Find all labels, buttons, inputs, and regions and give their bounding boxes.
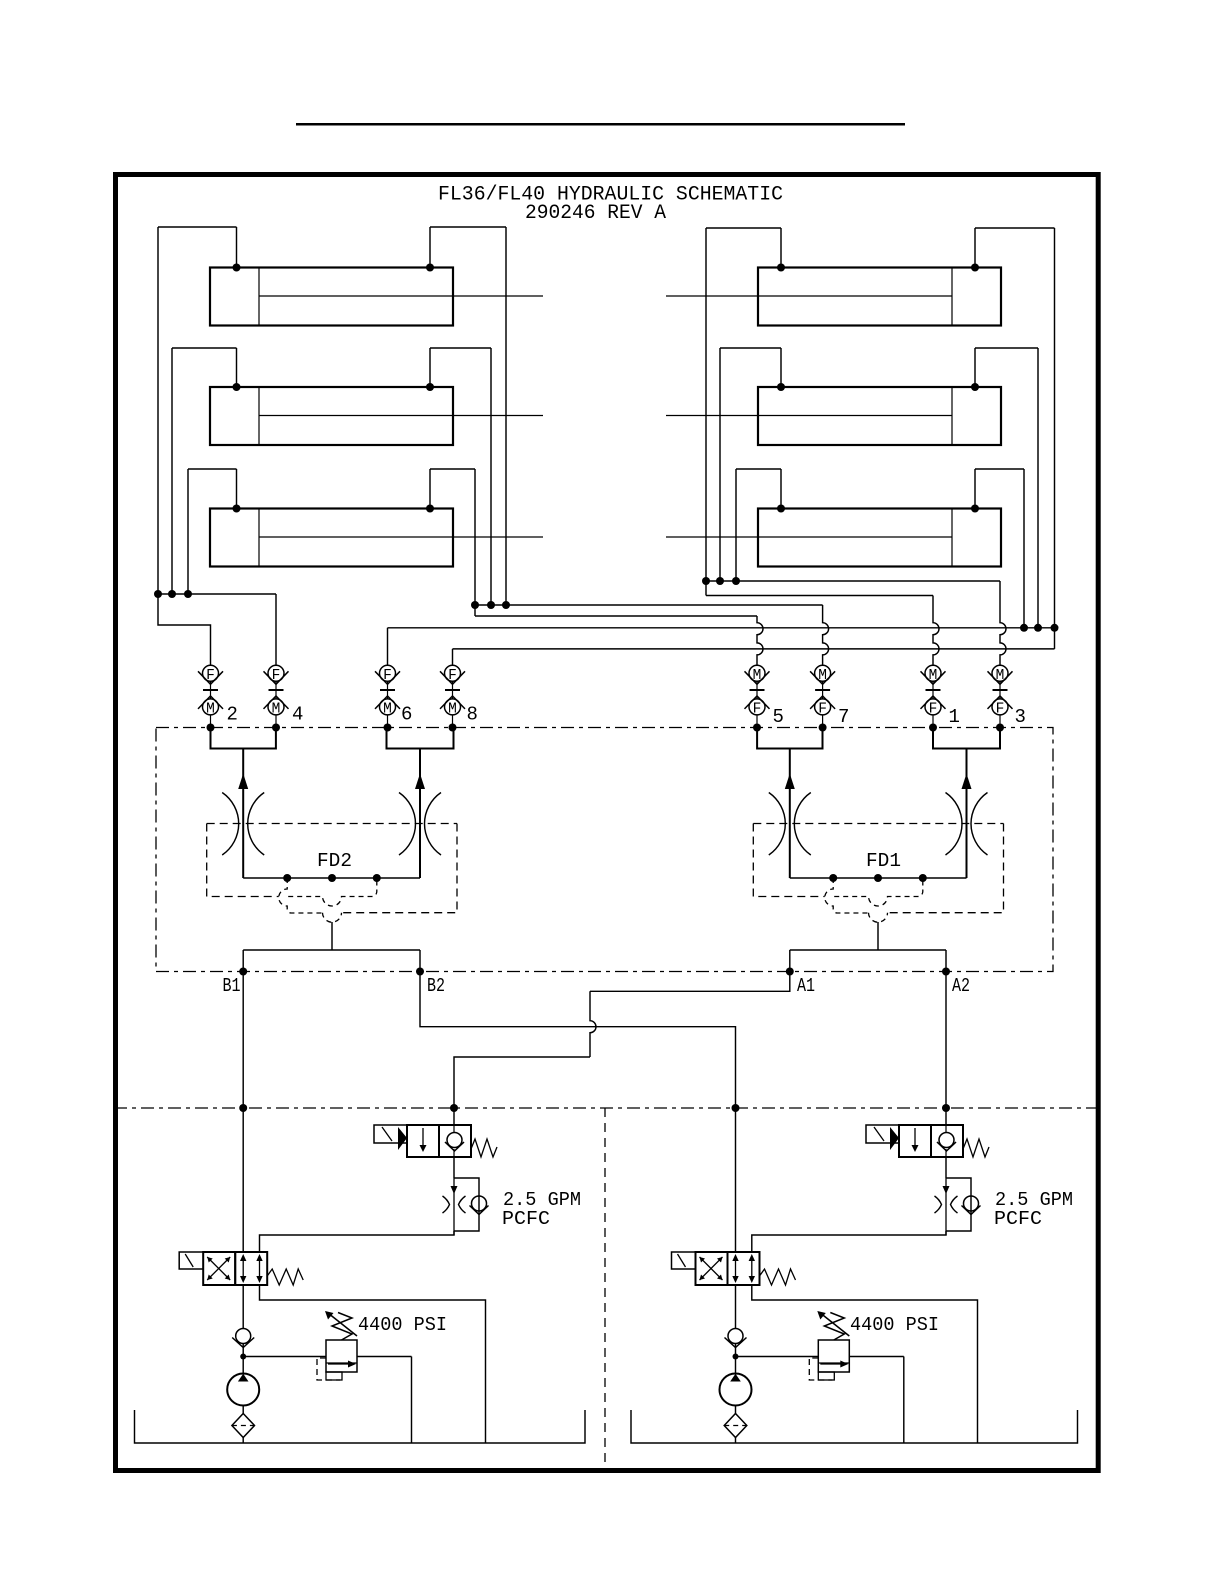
svg-text:B1: B1 — [223, 975, 241, 997]
svg-text:F: F — [448, 668, 457, 684]
svg-text:2: 2 — [227, 704, 238, 726]
svg-text:F: F — [206, 668, 215, 684]
svg-text:7: 7 — [838, 706, 849, 728]
svg-text:M: M — [996, 668, 1005, 684]
svg-text:4400 PSI: 4400 PSI — [358, 1314, 447, 1336]
svg-text:290246 REV A: 290246 REV A — [525, 202, 666, 225]
svg-text:M: M — [753, 668, 762, 684]
svg-text:4400 PSI: 4400 PSI — [850, 1314, 939, 1336]
svg-text:M: M — [383, 701, 392, 717]
svg-text:M: M — [818, 668, 827, 684]
svg-text:1: 1 — [949, 706, 960, 728]
svg-text:A1: A1 — [797, 975, 815, 997]
svg-text:FD2: FD2 — [317, 850, 352, 872]
svg-text:F: F — [753, 701, 762, 717]
svg-text:5: 5 — [773, 706, 784, 728]
svg-text:F: F — [272, 668, 281, 684]
svg-text:F: F — [818, 701, 827, 717]
svg-text:M: M — [448, 701, 457, 717]
svg-text:PCFC: PCFC — [994, 1208, 1042, 1230]
svg-text:3: 3 — [1015, 706, 1026, 728]
svg-text:M: M — [929, 668, 938, 684]
svg-text:F: F — [929, 701, 938, 717]
svg-text:F: F — [996, 701, 1005, 717]
svg-text:M: M — [206, 701, 215, 717]
svg-text:A2: A2 — [952, 975, 970, 997]
svg-text:F: F — [383, 668, 392, 684]
svg-text:M: M — [272, 701, 281, 717]
svg-text:FD1: FD1 — [866, 850, 901, 872]
svg-text:PCFC: PCFC — [502, 1208, 550, 1230]
svg-text:6: 6 — [401, 704, 412, 726]
svg-text:B2: B2 — [427, 975, 445, 997]
svg-text:8: 8 — [467, 704, 478, 726]
svg-text:4: 4 — [292, 704, 303, 726]
